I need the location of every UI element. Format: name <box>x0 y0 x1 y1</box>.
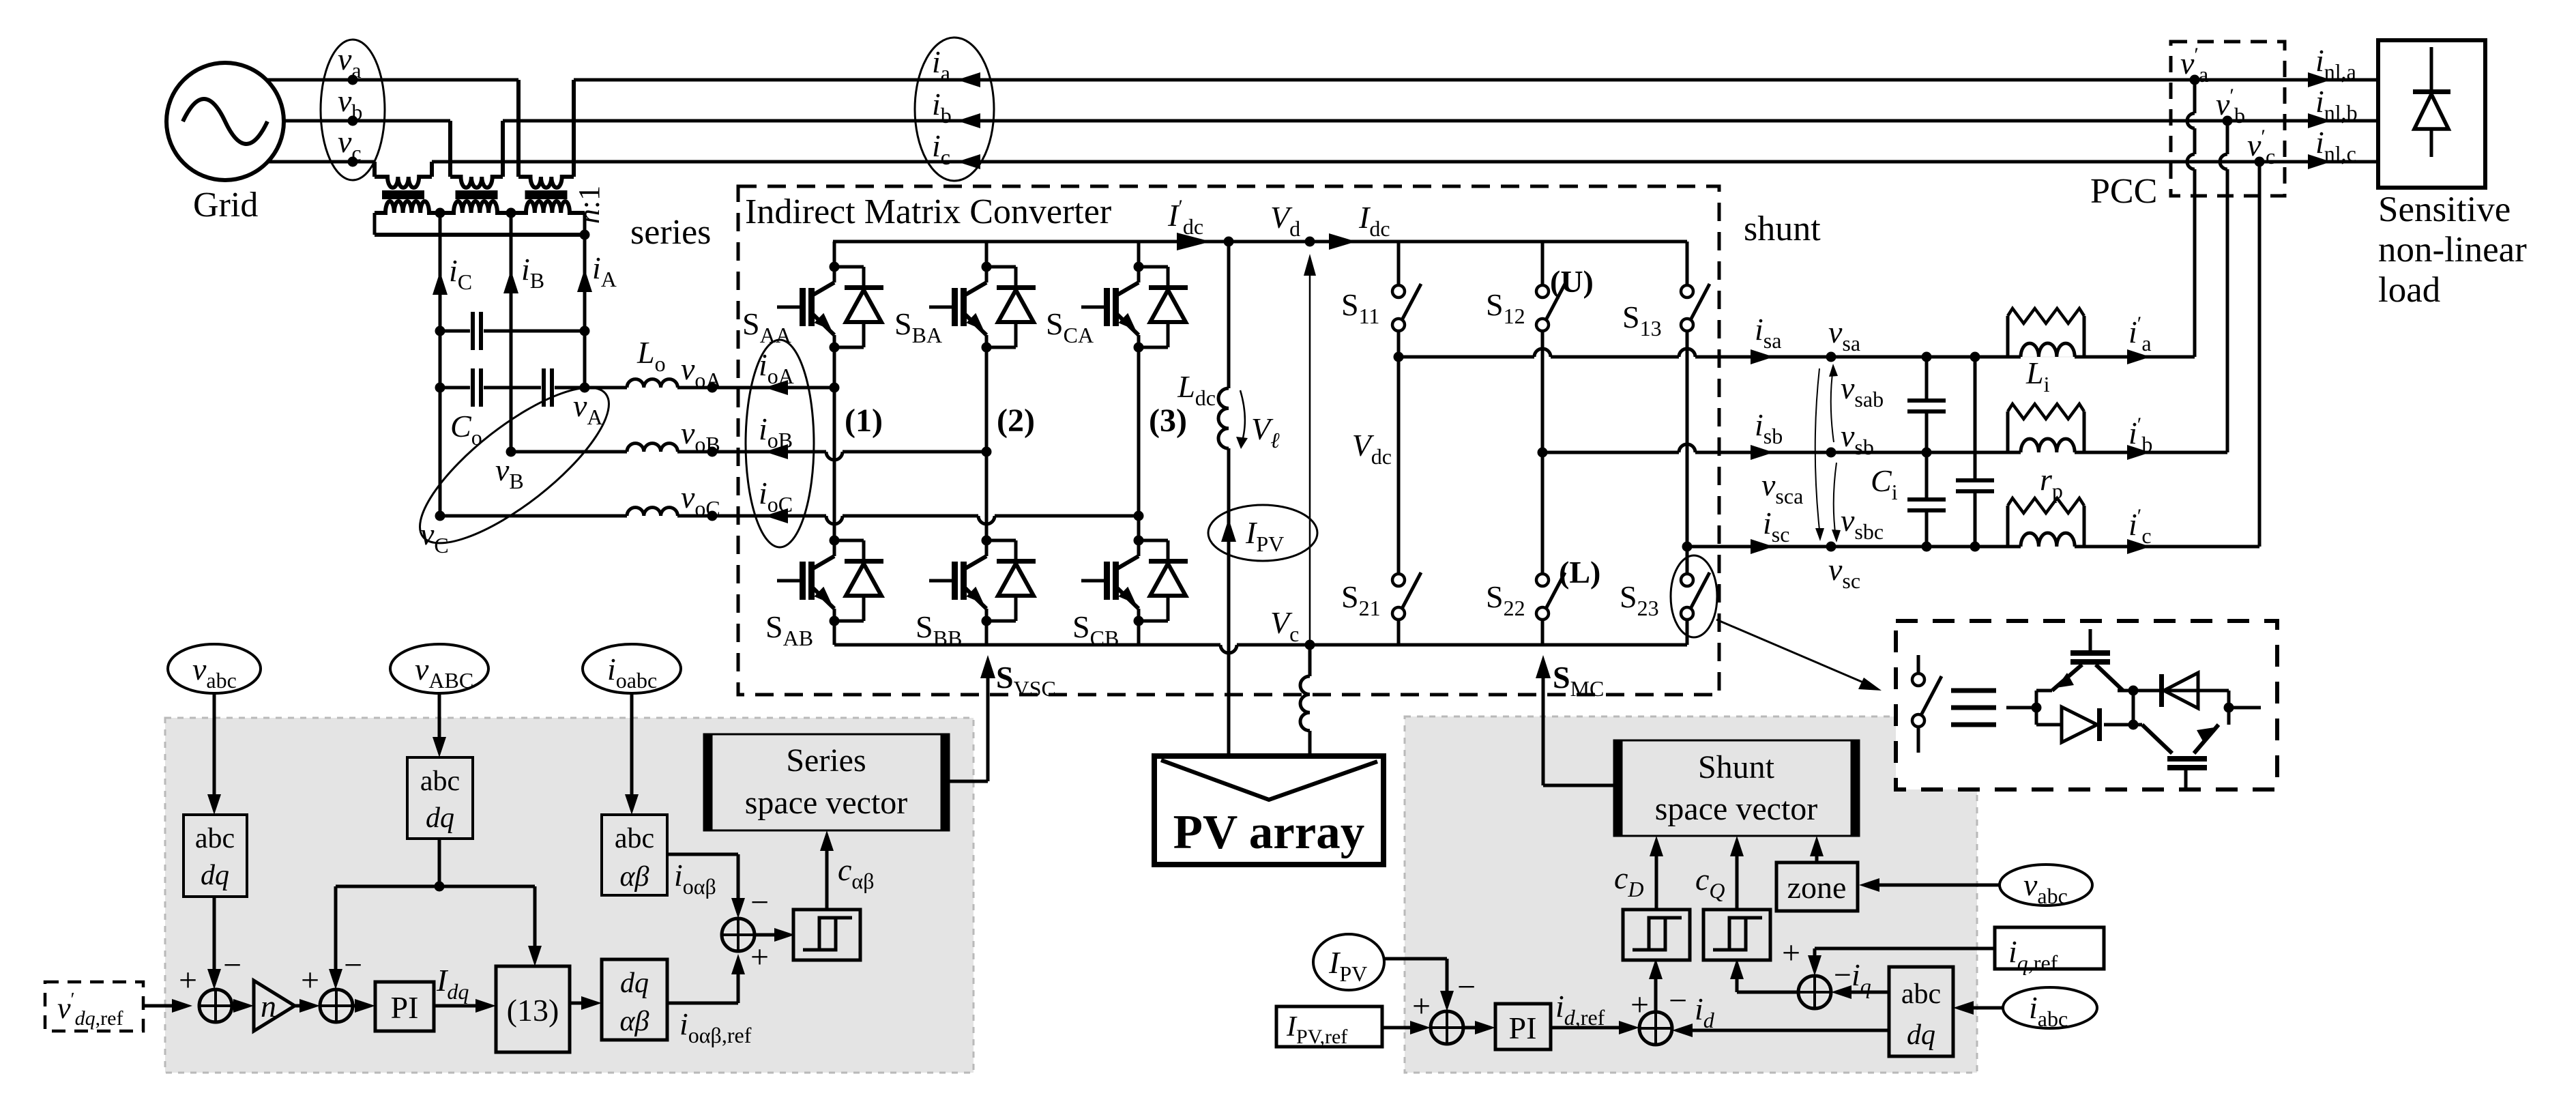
switch S_22 <box>1536 574 1549 586</box>
svg-text:PCC: PCC <box>2090 172 2157 211</box>
arrow into gain n <box>233 999 254 1013</box>
measurement ellipse I_PV <box>1208 505 1317 561</box>
wire leg2 bottom stem <box>985 621 989 645</box>
wire down junctionB <box>1813 948 1817 966</box>
node S12 output <box>1538 448 1548 458</box>
wire v_oB toward leg1 <box>677 450 826 454</box>
measurement ellipse v_ABC (rotated) <box>399 363 630 567</box>
arrow into junctionC top <box>1440 991 1454 1011</box>
detail diode 1 (bottom, pointing right) <box>2062 707 2097 742</box>
switch S_21 <box>1392 574 1405 586</box>
wire S11 column top <box>1397 242 1401 285</box>
node riser C at v_oA row <box>435 383 445 393</box>
wire c_D <box>1655 845 1658 911</box>
arrow i_C <box>433 272 448 295</box>
arrow into junction2 left <box>299 999 320 1013</box>
wire dc bottom rail left <box>834 643 1220 647</box>
wire C_ca cap column bottom <box>1974 493 1977 547</box>
svg-text:−: − <box>1457 969 1476 1005</box>
wire branch to (13) <box>533 886 537 957</box>
hysteresis comparator (series) <box>793 910 860 960</box>
arrow into series space vector <box>820 830 834 851</box>
gain block n (triangle) <box>254 981 295 1031</box>
wire I_PV to junctionC <box>1384 957 1447 961</box>
arrow into junctionC left <box>1410 1021 1431 1034</box>
svg-text:(3): (3) <box>1149 403 1187 439</box>
parallel L-r combo on line a <box>2006 316 2010 357</box>
transformer T2 (phase b) core <box>456 190 498 199</box>
wire junction3 to hysteresis <box>755 933 785 937</box>
node v_oA <box>707 383 718 393</box>
arrow into abc-alphabeta <box>625 794 639 815</box>
svg-text:series: series <box>630 213 711 252</box>
diode inside load <box>2430 47 2433 93</box>
reference box I_PV,ref <box>1276 1006 1382 1047</box>
node v_dq branch <box>435 882 445 892</box>
arrow into junction1 <box>172 999 192 1013</box>
svg-text:abc: abc <box>420 766 460 797</box>
transformer T1 (phase c) core <box>382 190 424 199</box>
PCC dashed box <box>2171 42 2285 196</box>
wire leg2 top stem <box>985 242 989 267</box>
detail IGBT 1 (top) <box>2052 665 2082 691</box>
svg-text:Sensitive: Sensitive <box>2378 190 2511 229</box>
hysteresis comparator c_Q <box>1703 910 1770 960</box>
wire S12 column top <box>1541 242 1545 285</box>
IGBT switch S_AB <box>830 536 840 546</box>
svg-text:PI: PI <box>1509 1011 1537 1045</box>
series control block background <box>165 718 974 1073</box>
switch S_23 <box>1681 574 1693 586</box>
arrow i_oC <box>765 508 788 523</box>
arrow into abc-dq 1 <box>207 794 221 815</box>
arrow i_nl,c <box>2308 154 2331 169</box>
svg-text:PI: PI <box>391 990 419 1025</box>
block abc/dq (v_ABC) <box>407 757 473 839</box>
IGBT switch S_BB <box>982 536 992 546</box>
wire i_sa inside box <box>1399 356 1534 359</box>
hysteresis comparator c_D <box>1623 910 1690 960</box>
arrow i_oB <box>765 444 788 459</box>
arrow into (13) <box>528 946 542 966</box>
wire abc-dq2 down <box>438 839 441 886</box>
node secondary junction A <box>580 230 590 240</box>
svg-text:shunt: shunt <box>1744 209 1821 248</box>
wire S13 column top <box>1686 242 1689 285</box>
arrow i_nl,a <box>2308 72 2331 87</box>
inductor L_o phase C <box>627 508 677 516</box>
arrow i_a <box>957 72 980 87</box>
wire i_sa to filter <box>1695 356 2021 359</box>
summing junction A <box>1639 1012 1672 1045</box>
block PI (series) <box>375 982 434 1031</box>
wire secondary T1 left lead <box>373 213 377 235</box>
node v_oB <box>707 447 718 457</box>
wire secondary T3 right lead <box>583 213 587 235</box>
ellipse around S_23 <box>1671 555 1717 637</box>
measurement arrow v_sbc <box>1834 463 1836 538</box>
wire up to junction3 <box>737 963 740 1003</box>
node v_B at v_oB line <box>506 447 516 457</box>
svg-text:+: + <box>1630 987 1649 1023</box>
wire S11-S21 column <box>1397 331 1401 574</box>
block abc/dq (v_abc) <box>184 815 247 897</box>
detail IGBT 2 (bottom) <box>2142 725 2172 753</box>
reference box i_q,ref <box>1995 927 2104 969</box>
measurement ellipse i_oabc <box>746 340 814 547</box>
wire v_abc to abc-dq <box>213 693 216 805</box>
wire i_sb inside box <box>1542 451 1679 454</box>
series injection transformer T3 (phase a) primary <box>516 80 521 177</box>
arrow into junctionB top <box>1808 955 1821 976</box>
input ellipse v_abc (zone) <box>2000 865 2092 905</box>
wire (13) to dq-ab <box>570 1002 592 1005</box>
capacitor C_i (c-a) <box>1956 478 1994 482</box>
node V_d <box>1305 237 1315 247</box>
node v_sb <box>1826 448 1836 458</box>
wire S_MC control <box>1542 665 1545 785</box>
block (13) <box>496 966 570 1052</box>
svg-text:dq: dq <box>426 802 454 834</box>
svg-text:+: + <box>1782 935 1800 971</box>
IGBT switch S_AA <box>830 262 840 272</box>
wire i_abc to abc-dq <box>1963 1006 2003 1010</box>
svg-text:zone: zone <box>1787 870 1847 905</box>
wire branch to junction2 <box>334 886 338 980</box>
measurement arrow v_sab <box>1831 368 1834 442</box>
arrow i'_c <box>2127 539 2150 554</box>
node dc-link left <box>1224 237 1234 247</box>
wire v_oA to leg 1 <box>677 386 834 390</box>
arrow I_dc <box>1329 233 1356 250</box>
svg-text:(2): (2) <box>997 403 1035 439</box>
svg-text:PV array: PV array <box>1173 806 1365 859</box>
shunt control block background <box>1405 716 1977 1073</box>
wire v_ABC to abc-dq <box>438 693 441 748</box>
wire S_VSC control <box>986 665 990 781</box>
arrow into abc-dq shunt <box>1953 1001 1974 1015</box>
wire cap column bottom <box>1925 512 1929 547</box>
node v'_c <box>2255 157 2265 167</box>
wire down junctionC <box>1446 959 1449 1002</box>
arrow into PI shunt <box>1475 1021 1495 1034</box>
wire dq-ab out <box>667 1002 738 1005</box>
capacitor C_i (a-b) <box>1907 398 1946 403</box>
svg-text:+: + <box>1412 988 1431 1024</box>
IGBT switch S_BA <box>982 262 992 272</box>
arrow i_B <box>503 270 518 293</box>
arrow i'_a <box>2127 349 2150 364</box>
svg-text:space vector: space vector <box>745 785 908 821</box>
capacitor C_i (b-c) <box>1907 497 1946 502</box>
summing junction B <box>1798 976 1831 1009</box>
wire v_oA to L_o <box>555 386 627 390</box>
wire v'_b drop top <box>2226 121 2229 154</box>
arrow i_sb <box>1751 445 1774 460</box>
node v_c <box>348 157 358 167</box>
wire v'_a drop mid <box>2193 128 2197 154</box>
detail diode 2 (top, pointing left) <box>2164 673 2198 708</box>
wire S21 column bottom <box>1397 619 1401 645</box>
wire dc top rail <box>833 240 1687 244</box>
arrow into (13) left <box>475 999 496 1013</box>
inductor L_o phase B <box>627 444 677 452</box>
wire v_B to L_o <box>511 450 627 454</box>
arrow into hyst cD <box>1649 959 1663 979</box>
wire riser i_A <box>583 213 587 388</box>
node row1 right <box>580 326 590 336</box>
wire phase a bus (grid side) <box>266 78 518 82</box>
equivalence sign <box>1951 688 1996 693</box>
IGBT switch S_CB <box>1134 536 1144 546</box>
wire phase c bus (grid side) <box>267 160 375 164</box>
svg-text:αβ: αβ <box>620 861 649 893</box>
wire i_sc to filter <box>1687 545 2021 549</box>
svg-text:(1): (1) <box>845 403 883 439</box>
measurement arrow V_dc <box>1309 258 1311 641</box>
summing junction 1 <box>199 989 232 1022</box>
wire down to junction3 <box>737 854 740 909</box>
node leg2 phase B <box>982 447 992 457</box>
input ellipse v_ABC <box>390 644 488 693</box>
wire phase a bus (line side) <box>574 78 2378 82</box>
detail switch symbol <box>1917 655 1920 673</box>
detail top branch wire <box>2036 689 2052 693</box>
wire i_oabc to abc-ab <box>630 693 634 805</box>
PV array box <box>1154 756 1384 865</box>
sensitive non-linear load box <box>2378 40 2485 188</box>
wire v_oB to leg 2 <box>843 450 986 454</box>
arrow i_oA <box>765 380 788 395</box>
svg-text:−: − <box>344 947 362 983</box>
wire leg3 top stem <box>1137 242 1141 267</box>
input ellipse i_oabc <box>583 644 681 693</box>
svg-text:+: + <box>179 962 197 998</box>
arrow i'_b <box>2127 445 2150 460</box>
wire dc bottom rail right <box>1237 643 1687 647</box>
svg-text:Indirect Matrix Converter: Indirect Matrix Converter <box>745 192 1111 231</box>
inductor (dc-link return) <box>1300 676 1310 731</box>
node leg1 phase A <box>830 383 840 393</box>
wire dc-link lower to PV array <box>1227 448 1231 756</box>
wire v_oC to leg 3 <box>995 514 1139 518</box>
node V_c <box>1305 640 1315 650</box>
svg-text:(13): (13) <box>507 993 559 1028</box>
wire S12-S22 column <box>1541 331 1545 574</box>
arrow I'_dc <box>1177 233 1211 250</box>
IGBT switch S_CA <box>1134 262 1144 272</box>
svg-text:αβ: αβ <box>620 1006 649 1037</box>
wire c_Q <box>1736 845 1739 911</box>
block Series space vector <box>704 734 949 830</box>
svg-text:n:1: n:1 <box>572 186 606 224</box>
arrow into junction2 <box>329 969 342 989</box>
wire v_oC toward leg1 <box>677 514 826 518</box>
wire i_sb to filter <box>1695 451 2021 454</box>
wire cap row C-A right <box>484 330 585 333</box>
wire v_oC mid <box>843 514 978 518</box>
inductor L_dc <box>1218 388 1229 448</box>
wire vref to junction1 <box>143 1004 183 1008</box>
arrow S23 to detail <box>1716 620 1873 686</box>
wire leg1 bottom stem <box>833 621 836 645</box>
summing junction 3 <box>722 918 755 951</box>
arrow into dq-ab <box>581 996 602 1010</box>
switch S_12 <box>1536 285 1549 298</box>
wire i'_c to riser <box>2084 545 2259 549</box>
svg-text:+: + <box>301 962 319 998</box>
arrow c_D into shunt SV <box>1650 836 1663 856</box>
measurement arrow v_sca <box>1815 368 1820 536</box>
arrow into junctionB right <box>1831 985 1851 999</box>
wire leg2 mid <box>985 347 989 540</box>
capacitor C_o (C-B) <box>471 368 475 407</box>
wire leg1 top stem <box>833 242 836 267</box>
node v_sc <box>1826 542 1836 552</box>
svg-text:−: − <box>1669 983 1687 1019</box>
wire v_oA mid segment <box>484 386 541 390</box>
node leg3 phase C <box>1134 511 1144 521</box>
block PI (shunt) <box>1495 1004 1551 1049</box>
wire PI to junctionA <box>1551 1026 1630 1030</box>
arrow into abc-dq 2 <box>433 737 446 757</box>
svg-text:−: − <box>750 884 769 920</box>
transformer T2 secondary winding <box>440 201 511 213</box>
detail bottom branch wire <box>2036 723 2060 727</box>
node v'_a <box>2190 75 2200 85</box>
node v_b <box>348 116 358 126</box>
svg-text:dq: dq <box>620 968 649 999</box>
wire junction1 to gain <box>232 1004 244 1008</box>
wire junctionC to PI <box>1463 1026 1486 1030</box>
block abc/alphabeta <box>602 815 667 895</box>
arrow i_sa <box>1751 349 1774 364</box>
arrow i_nl,b <box>2308 113 2331 128</box>
wire hysteresis to series SV <box>825 840 829 910</box>
node v_sa <box>1826 352 1836 362</box>
svg-text:dq: dq <box>201 860 229 891</box>
arrow i_sc <box>1751 539 1774 554</box>
node row1 left <box>435 326 445 336</box>
wire i_q,ref to junctionB <box>1815 947 1995 951</box>
svg-text:dq: dq <box>1907 1019 1935 1051</box>
wire I_PV,ref to junctionC <box>1382 1026 1421 1030</box>
node v_C at v_oC line <box>435 511 445 521</box>
wire secondary delta rail <box>375 233 585 237</box>
wire phase b bus (grid side) <box>282 119 450 123</box>
Indirect Matrix Converter boundary box <box>738 186 1719 695</box>
series injection transformer T1 (phase c) primary <box>372 162 377 177</box>
wire i'_a to riser <box>2084 356 2195 359</box>
wire v_oA segment C-cap <box>440 386 470 390</box>
parallel L-r combo on line b <box>2006 411 2010 452</box>
wire v'_a drop top <box>2193 80 2197 113</box>
node S11 output <box>1394 352 1404 362</box>
wire phase b bus (line side) <box>503 119 2378 123</box>
svg-text:Series: Series <box>786 742 866 779</box>
PV array chevron <box>1161 760 1377 800</box>
wire riser i_C <box>439 213 442 516</box>
block zone <box>1776 862 1858 911</box>
wire series SV to S_VSC <box>949 780 988 783</box>
wire S22 column bottom <box>1541 619 1545 645</box>
wire up to hyst cQ <box>1736 968 1739 992</box>
input ellipse i_abc <box>2003 987 2097 1028</box>
arrow into PI <box>355 999 375 1013</box>
svg-text:(U): (U) <box>1550 264 1594 299</box>
detail circuit leads <box>2006 706 2036 710</box>
node v_A <box>580 383 590 393</box>
wire i_q from abc-dq <box>1841 991 1889 994</box>
arrow S_MC <box>1536 655 1551 678</box>
arrow into junction1 top <box>207 969 221 989</box>
arrow i_A <box>577 269 592 292</box>
arrow into zone <box>1859 878 1879 892</box>
wire v'_c drop <box>2258 162 2262 547</box>
grid source <box>166 63 284 180</box>
summing junction C <box>1431 1011 1463 1044</box>
wire dc-link upper <box>1227 242 1231 388</box>
arrow c_Q into shunt SV <box>1730 836 1744 856</box>
svg-text:+: + <box>750 939 769 975</box>
wire coil to PV array <box>1308 731 1312 756</box>
wire i'_b to riser <box>2084 451 2227 454</box>
arrow zone into shunt SV <box>1810 836 1824 856</box>
node S13 output <box>1682 542 1693 552</box>
wire phase c bus (line side) <box>432 160 2378 164</box>
arrow into junctionA left <box>1619 1021 1639 1034</box>
node secondary junction B <box>506 208 516 218</box>
summing junction 2 <box>320 989 353 1022</box>
wire riser i_B <box>510 213 513 452</box>
switch S_11 <box>1392 285 1405 298</box>
arrow into hyst cQ <box>1730 959 1744 979</box>
node v'_b <box>2223 116 2233 126</box>
svg-text:load: load <box>2378 270 2440 310</box>
node v_a <box>348 75 358 85</box>
capacitor C_o (B-A) <box>542 368 546 407</box>
wire PI to (13) <box>434 1004 486 1008</box>
inductor L_o phase A <box>627 379 677 388</box>
measurement ellipse v_abc <box>321 40 385 180</box>
arrow I_PV direction <box>1221 519 1236 542</box>
input ellipse v_abc <box>168 644 261 693</box>
block dq/alphabeta <box>602 959 667 1040</box>
arrow S_VSC <box>980 655 995 678</box>
wire leg3 mid <box>1137 347 1141 540</box>
transformer T3 (phase a) core <box>525 190 568 199</box>
transformer T1 secondary winding <box>375 201 440 213</box>
wire cap row C-A left <box>440 330 470 333</box>
svg-text:−: − <box>223 947 241 983</box>
svg-text:abc: abc <box>615 823 654 854</box>
arrow into junction3 bottom <box>731 954 745 974</box>
wire S13-S23 column <box>1686 331 1689 574</box>
arrow into junction3 top <box>731 898 745 918</box>
wire v'_b drop bottom <box>2226 169 2229 452</box>
wire S_MC to shunt SV <box>1543 784 1614 787</box>
switch S_13 <box>1681 285 1693 298</box>
node v_oC <box>707 511 718 521</box>
wire i_sa mid <box>1551 356 1679 359</box>
wire abc-ab out <box>667 853 738 856</box>
wire leg3 bottom stem <box>1137 621 1141 645</box>
arrow i_b <box>957 113 980 128</box>
arrow into junctionA right <box>1672 1024 1693 1037</box>
wire gain to junction2 <box>295 1004 310 1008</box>
svg-text:non-linear: non-linear <box>2378 230 2527 270</box>
capacitor C_o (C-A) <box>471 312 475 350</box>
